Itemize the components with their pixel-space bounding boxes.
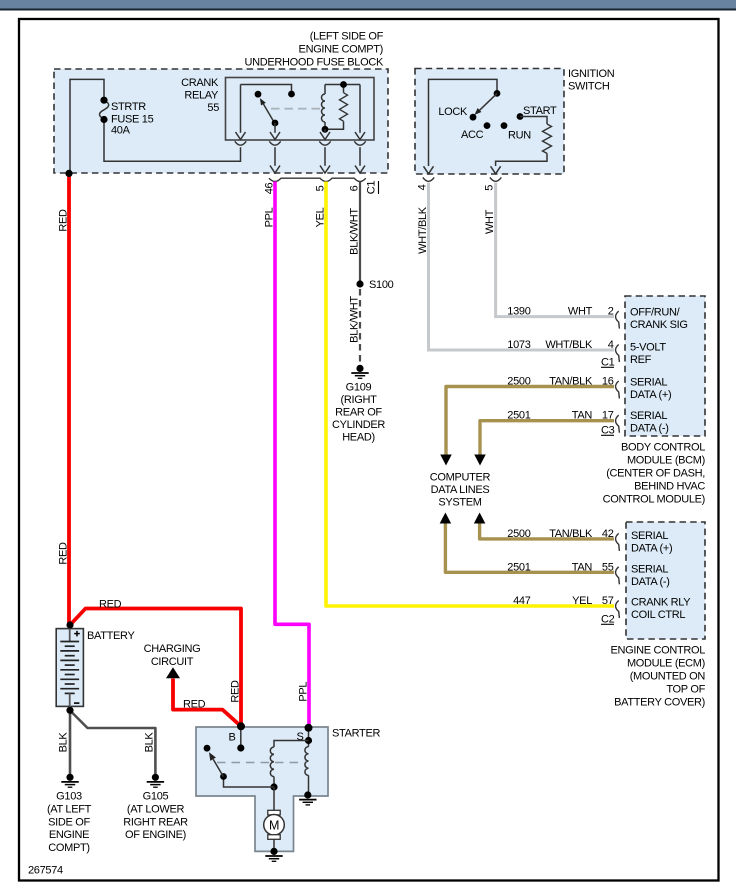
svg-text:447: 447 <box>513 595 531 607</box>
svg-text:40A: 40A <box>111 125 131 137</box>
svg-text:BEHIND HVAC: BEHIND HVAC <box>634 481 705 493</box>
svg-text:STRTR: STRTR <box>111 101 146 113</box>
svg-text:C3: C3 <box>601 425 615 437</box>
svg-text:COIL CTRL: COIL CTRL <box>631 609 685 621</box>
svg-text:CRANK SIG: CRANK SIG <box>630 319 688 331</box>
svg-text:WHT: WHT <box>484 209 496 234</box>
svg-text:55: 55 <box>602 562 614 574</box>
svg-text:57: 57 <box>602 595 614 607</box>
svg-text:RED: RED <box>99 599 122 611</box>
svg-text:UNDERHOOD FUSE BLOCK: UNDERHOOD FUSE BLOCK <box>245 57 384 69</box>
svg-text:RED: RED <box>58 209 70 232</box>
svg-text:C1: C1 <box>601 357 615 369</box>
svg-text:TOP OF: TOP OF <box>666 684 705 696</box>
svg-text:SWITCH: SWITCH <box>568 81 610 93</box>
svg-text:5: 5 <box>484 185 496 191</box>
svg-text:REF: REF <box>630 354 652 366</box>
svg-text:STARTER: STARTER <box>332 728 380 740</box>
svg-text:SERIAL: SERIAL <box>631 564 668 576</box>
svg-text:TAN/BLK: TAN/BLK <box>549 376 593 388</box>
svg-text:267574: 267574 <box>28 865 63 877</box>
svg-text:(AT LEFT: (AT LEFT <box>47 803 92 815</box>
svg-text:S100: S100 <box>369 279 394 291</box>
svg-text:16: 16 <box>602 376 614 388</box>
svg-text:G103: G103 <box>56 791 82 803</box>
svg-text:4: 4 <box>608 339 614 351</box>
svg-text:TAN: TAN <box>572 410 593 422</box>
svg-text:G109: G109 <box>346 382 372 394</box>
svg-text:TAN: TAN <box>572 562 593 574</box>
svg-text:CRANK: CRANK <box>181 77 219 89</box>
svg-text:46: 46 <box>264 183 276 195</box>
svg-text:BLK/WHT: BLK/WHT <box>349 208 361 255</box>
svg-text:MODULE (ECM): MODULE (ECM) <box>627 658 705 670</box>
svg-text:ENGINE: ENGINE <box>49 829 89 841</box>
svg-text:LOCK: LOCK <box>438 106 468 118</box>
svg-text:WHT: WHT <box>568 306 593 318</box>
svg-text:OF ENGINE): OF ENGINE) <box>125 829 186 841</box>
svg-text:YEL: YEL <box>315 207 327 227</box>
svg-text:PPL: PPL <box>298 682 310 702</box>
svg-text:S: S <box>297 731 304 743</box>
svg-text:1073: 1073 <box>507 339 530 351</box>
svg-text:START: START <box>523 105 557 117</box>
svg-text:BLK: BLK <box>144 732 156 753</box>
svg-text:BLK/WHT: BLK/WHT <box>349 296 361 343</box>
svg-text:RIGHT REAR: RIGHT REAR <box>123 816 188 828</box>
svg-text:BATTERY: BATTERY <box>87 630 135 642</box>
svg-text:YEL: YEL <box>572 595 592 607</box>
svg-text:2: 2 <box>608 306 614 318</box>
svg-text:17: 17 <box>602 410 614 422</box>
svg-text:DATA LINES: DATA LINES <box>431 484 490 496</box>
svg-text:BODY CONTROL: BODY CONTROL <box>621 442 705 454</box>
svg-text:CYLINDER: CYLINDER <box>332 419 385 431</box>
svg-text:(AT LOWER: (AT LOWER <box>127 803 185 815</box>
svg-text:SERIAL: SERIAL <box>631 530 668 542</box>
svg-text:C1: C1 <box>366 181 378 195</box>
svg-text:HEAD): HEAD) <box>342 432 375 444</box>
svg-text:BLK: BLK <box>58 732 70 753</box>
svg-text:RED: RED <box>230 680 242 703</box>
svg-text:RED: RED <box>183 699 206 711</box>
svg-text:SYSTEM: SYSTEM <box>438 497 481 509</box>
svg-text:CIRCUIT: CIRCUIT <box>151 656 194 668</box>
svg-text:CRANK RLY: CRANK RLY <box>631 597 691 609</box>
svg-text:RELAY: RELAY <box>184 90 219 102</box>
svg-text:REAR OF: REAR OF <box>335 407 382 419</box>
svg-text:42: 42 <box>602 528 614 540</box>
svg-text:SERIAL: SERIAL <box>630 410 667 422</box>
svg-text:55: 55 <box>207 102 219 114</box>
svg-text:ENGINE COMPT): ENGINE COMPT) <box>299 44 383 56</box>
svg-text:(CENTER OF DASH,: (CENTER OF DASH, <box>606 468 705 480</box>
svg-text:DATA (+): DATA (+) <box>631 543 672 555</box>
svg-text:1390: 1390 <box>507 306 530 318</box>
svg-text:IGNITION: IGNITION <box>568 68 615 80</box>
svg-text:PPL: PPL <box>264 207 276 227</box>
svg-text:2501: 2501 <box>507 562 530 574</box>
svg-text:C2: C2 <box>601 614 615 626</box>
svg-text:6: 6 <box>349 185 361 191</box>
svg-text:MODULE (BCM): MODULE (BCM) <box>627 455 705 467</box>
svg-text:DATA (-): DATA (-) <box>631 576 670 588</box>
svg-text:COMPUTER: COMPUTER <box>430 472 491 484</box>
svg-text:WHT/BLK: WHT/BLK <box>545 339 593 351</box>
svg-text:COMPT): COMPT) <box>48 842 89 854</box>
svg-text:RED: RED <box>58 542 70 565</box>
svg-text:G105: G105 <box>143 791 169 803</box>
svg-text:2500: 2500 <box>507 376 530 388</box>
svg-text:ACC: ACC <box>461 129 484 141</box>
svg-text:2501: 2501 <box>507 410 530 422</box>
svg-text:5-VOLT: 5-VOLT <box>630 342 666 354</box>
svg-text:SERIAL: SERIAL <box>630 377 667 389</box>
svg-text:RUN: RUN <box>508 130 531 142</box>
svg-text:M: M <box>269 818 279 832</box>
svg-text:CHARGING: CHARGING <box>144 643 201 655</box>
svg-text:BATTERY COVER): BATTERY COVER) <box>614 697 705 709</box>
svg-text:ENGINE CONTROL: ENGINE CONTROL <box>610 645 705 657</box>
svg-text:DATA (+): DATA (+) <box>630 389 671 401</box>
svg-text:(LEFT SIDE OF: (LEFT SIDE OF <box>310 31 384 43</box>
svg-text:2500: 2500 <box>507 528 530 540</box>
svg-text:4: 4 <box>417 184 429 190</box>
svg-text:WHT/BLK: WHT/BLK <box>417 206 429 254</box>
svg-text:(RIGHT: (RIGHT <box>341 394 378 406</box>
svg-text:TAN/BLK: TAN/BLK <box>549 528 593 540</box>
svg-text:B: B <box>229 732 236 744</box>
svg-text:OFF/RUN/: OFF/RUN/ <box>630 307 681 319</box>
svg-text:(MOUNTED ON: (MOUNTED ON <box>630 671 706 683</box>
svg-text:5: 5 <box>315 185 327 191</box>
svg-text:DATA (-): DATA (-) <box>630 423 669 435</box>
svg-text:CONTROL MODULE): CONTROL MODULE) <box>603 494 705 506</box>
svg-text:SIDE OF: SIDE OF <box>48 816 90 828</box>
